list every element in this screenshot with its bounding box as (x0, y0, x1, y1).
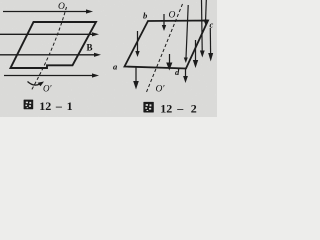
svg-text:–: – (55, 99, 63, 113)
svg-text:O′: O′ (43, 84, 52, 94)
svg-text:O: O (58, 2, 65, 12)
svg-text:B: B (87, 43, 93, 53)
svg-text:–: – (176, 102, 184, 116)
svg-text:12: 12 (160, 102, 172, 116)
svg-text:b: b (143, 11, 147, 21)
svg-text:O′: O′ (156, 85, 166, 95)
svg-text:O: O (169, 11, 176, 21)
svg-text:2: 2 (191, 102, 197, 116)
svg-text:1: 1 (67, 99, 73, 113)
svg-text:c: c (210, 20, 214, 30)
svg-text:12: 12 (39, 99, 51, 113)
